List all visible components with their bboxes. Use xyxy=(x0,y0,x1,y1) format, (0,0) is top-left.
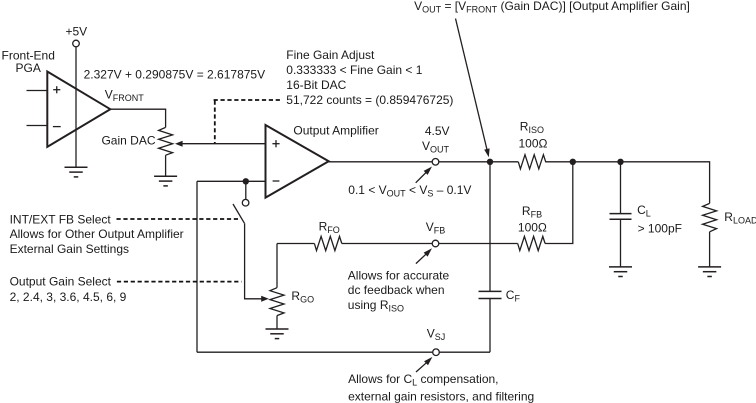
svg-text:external gain resistors, and f: external gain resistors, and filtering xyxy=(348,389,534,403)
dashed control lines xyxy=(117,100,282,282)
wire PGA + input stub xyxy=(27,90,48,92)
svg-text:2.327V + 0.290875V = 2.617875V: 2.327V + 0.290875V = 2.617875V xyxy=(84,68,266,82)
wire switch to RGO wiper xyxy=(245,223,262,299)
capacitor CF xyxy=(479,291,502,298)
wire dashed INT/EXT FB select xyxy=(117,218,240,220)
svg-text:Allows for CL compensation,: Allows for CL compensation, xyxy=(348,372,498,388)
node VSJ open circle xyxy=(433,349,440,356)
wire VSJ rail xyxy=(197,351,490,353)
node CL junction dot xyxy=(617,159,623,165)
op-amp U2 Output Amplifier xyxy=(266,125,329,198)
resistor RISO xyxy=(518,155,545,169)
svg-text:51,722 counts = (0.859476725): 51,722 counts = (0.859476725) xyxy=(286,93,453,107)
wire left feedback vertical xyxy=(196,181,198,352)
svg-text:Gain DAC: Gain DAC xyxy=(101,134,155,148)
wire VOUT node down to CF xyxy=(489,162,491,292)
switch S1 INT/EXT FB select xyxy=(233,199,249,223)
op-amp U1 Front-End PGA xyxy=(47,72,110,147)
wire RLOAD bottom lead xyxy=(709,232,711,267)
svg-text:2, 2.4, 3, 3.6, 4.5, 6, 9: 2, 2.4, 3, 3.6, 4.5, 6, 9 xyxy=(10,290,127,304)
svg-text:16-Bit DAC: 16-Bit DAC xyxy=(286,78,346,92)
ground CL xyxy=(609,267,632,277)
resistor RFO xyxy=(314,236,341,250)
wire PGA output to Gain DAC top xyxy=(110,109,165,127)
svg-text:PGA: PGA xyxy=(16,61,41,75)
label output amp + xyxy=(272,140,279,147)
svg-text:VOUT = [VFRONT (Gain DAC)] [Ou: VOUT = [VFRONT (Gain DAC)] [Output Ampli… xyxy=(414,0,690,14)
ground RLOAD xyxy=(698,267,721,277)
wire output amp - input xyxy=(197,180,266,182)
wire dashed fine-gain horizontal xyxy=(214,99,281,101)
label PGA - xyxy=(53,126,61,128)
svg-text:Output Amplifier: Output Amplifier xyxy=(293,124,378,138)
resistor RGO (potentiometer) xyxy=(276,244,278,288)
wire RISO right xyxy=(545,162,709,204)
arrow VOUT formula pointer xyxy=(456,19,488,151)
wire CL top lead xyxy=(620,162,622,214)
wire RFB right to top node xyxy=(545,162,573,244)
resistor RLOAD xyxy=(703,203,717,231)
svg-text:100Ω: 100Ω xyxy=(518,220,547,234)
node - input junction xyxy=(243,178,249,184)
svg-text:Allows for accurate: Allows for accurate xyxy=(348,268,450,282)
svg-text:External Gain Settings: External Gain Settings xyxy=(10,242,129,256)
svg-text:+5V: +5V xyxy=(65,25,87,39)
wire PGA - input stub xyxy=(27,125,48,127)
svg-text:0.333333 < Fine Gain < 1: 0.333333 < Fine Gain < 1 xyxy=(286,63,422,77)
wire dashed fine-gain vertical xyxy=(214,101,216,144)
node VFB open circle xyxy=(432,240,439,247)
wire Gain DAC bottom lead xyxy=(165,155,167,176)
wire CF to VSJ rail xyxy=(489,299,491,353)
svg-text:INT/EXT FB Select: INT/EXT FB Select xyxy=(10,212,112,226)
svg-text:0.1 < VOUT < VS – 0.1V: 0.1 < VOUT < VS – 0.1V xyxy=(348,183,471,199)
+5V supply terminal xyxy=(73,40,80,47)
capacitor CL xyxy=(610,214,632,220)
node VOUT open circle xyxy=(432,159,439,166)
wire CL bottom lead xyxy=(620,219,622,267)
ground Gain DAC xyxy=(154,176,177,186)
node VOUT junction dot xyxy=(487,159,493,165)
svg-text:dc feedback when: dc feedback when xyxy=(348,283,445,297)
svg-text:Fine Gain Adjust: Fine Gain Adjust xyxy=(286,48,375,62)
label output amp - xyxy=(273,180,280,182)
arrow VSJ note pointer xyxy=(416,362,427,372)
arrow VFB note pointer xyxy=(416,254,427,264)
svg-text:Output Gain Select: Output Gain Select xyxy=(10,275,112,289)
label PGA + xyxy=(53,86,60,93)
wire output amp output xyxy=(329,161,519,163)
svg-text:100Ω: 100Ω xyxy=(519,137,548,151)
wire +5V to ground through PGA xyxy=(75,47,77,168)
arrow 0.1 note pointer xyxy=(416,172,427,183)
node RISO-RFB junction dot xyxy=(570,159,576,165)
wire dashed Output Gain Select xyxy=(117,281,242,283)
ground RGO xyxy=(266,329,289,339)
wire VFB line left xyxy=(277,243,314,245)
wire junction to switch contact xyxy=(245,181,247,199)
svg-text:Allows for Other Output Amplif: Allows for Other Output Amplifier xyxy=(10,227,184,241)
svg-text:> 100pF: > 100pF xyxy=(638,221,682,235)
ground PGA supply xyxy=(65,167,88,177)
wire Gain DAC wiper to output amp + input xyxy=(182,143,266,145)
svg-text:4.5V: 4.5V xyxy=(425,124,450,138)
resistor RFB xyxy=(518,236,545,250)
wire RFO to RFB xyxy=(342,243,518,245)
resistor Gain DAC (potentiometer) xyxy=(159,127,173,155)
